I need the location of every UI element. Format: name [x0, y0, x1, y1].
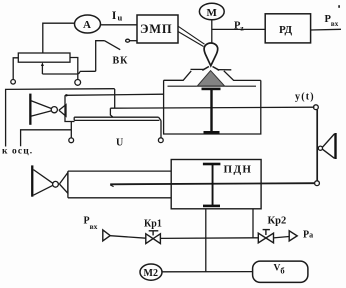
svg-text:М2: М2: [144, 268, 158, 279]
svg-text:Ра: Ра: [303, 230, 313, 241]
svg-text:Кр1: Кр1: [144, 218, 162, 229]
svg-text:А: А: [83, 19, 91, 31]
svg-text:ПДН: ПДН: [224, 163, 253, 175]
svg-text:ВК: ВК: [113, 56, 129, 67]
svg-text:РД: РД: [279, 24, 293, 36]
svg-text:к осц.: к осц.: [2, 146, 33, 156]
svg-text:Кр2: Кр2: [268, 215, 287, 226]
svg-text:М: М: [207, 7, 218, 19]
svg-text:U: U: [116, 138, 123, 149]
svg-text:y(t): y(t): [295, 92, 315, 103]
svg-text:ЭМП: ЭМП: [140, 22, 172, 36]
